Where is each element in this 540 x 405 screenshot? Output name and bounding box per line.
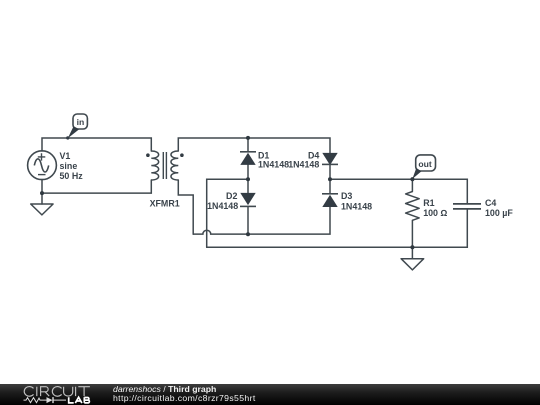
svg-text:1N4148: 1N4148: [341, 201, 372, 211]
svg-text:100 µF: 100 µF: [485, 208, 513, 218]
wire D3 top lead: [329, 179, 331, 194]
wire lower return to C4 bottom: [207, 209, 468, 247]
wire secondary top to bridge top: [178, 138, 330, 153]
wire D1 top lead: [247, 138, 249, 152]
junction node out: [410, 177, 414, 181]
wire out line to C4 top: [330, 179, 467, 204]
svg-text:C4: C4: [485, 198, 496, 208]
node in flag: [66, 114, 87, 140]
svg-text:in: in: [77, 117, 85, 127]
wire R1 bottom lead: [411, 220, 413, 247]
junction D1-D2 node: [246, 177, 250, 181]
wire bridge bottom with hop: [193, 207, 330, 234]
ground (below V1): [31, 204, 53, 215]
svg-text:XFMR1: XFMR1: [150, 198, 180, 208]
diode D3: [322, 194, 338, 207]
svg-text:sine: sine: [60, 161, 78, 171]
svg-text:1N4148: 1N4148: [207, 201, 238, 211]
junction bridge bottom node: [246, 232, 250, 236]
svg-text:D3: D3: [341, 191, 352, 201]
svg-text:1N4148: 1N4148: [288, 159, 319, 169]
wire V1 top to transformer primary: [42, 138, 151, 151]
junction V1 ground node: [40, 191, 44, 195]
svg-text:V1: V1: [60, 151, 71, 161]
logo CIRCUIT lettering: [24, 387, 90, 397]
diode D1: [240, 152, 256, 165]
junction R1 ground node: [410, 245, 414, 249]
transformer XFMR1: [151, 151, 178, 180]
voltage source V1: [28, 151, 57, 180]
wire D2 bottom lead: [247, 207, 249, 235]
CircuitLab logo: [0, 384, 110, 405]
wire V1 bottom to ground node: [41, 180, 43, 194]
wire mid-left node to lower return: [207, 179, 248, 247]
wire D2 top lead: [247, 179, 249, 193]
wire R1 top lead: [411, 179, 413, 191]
transformer phase dots: [146, 153, 150, 157]
resistor R1: [406, 192, 420, 221]
svg-text:out: out: [418, 159, 431, 169]
svg-text:R1: R1: [423, 198, 434, 208]
capacitor C4: [453, 204, 481, 209]
wire primary bottom: [42, 180, 151, 193]
wire ground lead V1: [41, 193, 43, 204]
wire R1 ground lead: [411, 247, 413, 258]
ground (below R1): [401, 259, 424, 270]
node out flag: [411, 155, 436, 181]
wire D1 bottom lead: [247, 165, 249, 180]
V1 value labels: [60, 151, 84, 181]
logo resistor+diode glyph: [24, 397, 67, 403]
svg-text:D2: D2: [226, 191, 237, 201]
footer author / title: [113, 385, 216, 394]
footer url: [113, 394, 256, 403]
junction bridge top node: [246, 136, 250, 140]
svg-text:50 Hz: 50 Hz: [60, 171, 84, 181]
svg-text:1N4148: 1N4148: [258, 159, 289, 169]
wire secondary bottom jog: [178, 180, 193, 234]
logo LAB lettering: [69, 397, 90, 403]
wire D4 bottom lead: [329, 165, 331, 180]
junction D4-D3 node: [328, 177, 332, 181]
footer bar: [0, 384, 540, 405]
diode D4: [322, 153, 338, 165]
diode D2: [240, 193, 256, 207]
svg-text:100 Ω: 100 Ω: [423, 208, 447, 218]
